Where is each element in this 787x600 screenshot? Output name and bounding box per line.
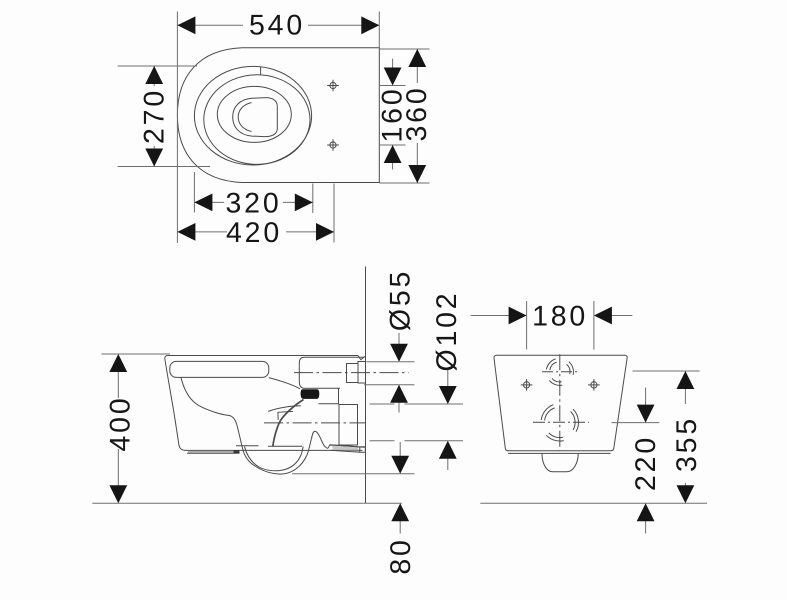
arrow 220 bottom (points up) <box>637 503 655 521</box>
outlet bump <box>542 454 578 472</box>
svg-text:Ø102: Ø102 <box>431 291 463 372</box>
80 reference line <box>292 473 415 475</box>
arrow 355 top (points up) <box>677 371 695 389</box>
flush dashed circle arcs <box>546 359 573 386</box>
arrow 420 left <box>177 223 195 241</box>
dim D55 line <box>398 333 400 345</box>
rear center line (dash-dot) <box>559 354 561 450</box>
extension line 180 right <box>593 301 595 350</box>
water surface inner arc <box>238 103 251 132</box>
trap water line right <box>268 445 302 447</box>
outlet pipe band bottom <box>331 450 361 452</box>
extension line right y183 <box>379 182 429 184</box>
extension line 270 top <box>118 65 197 67</box>
flush cross line (dash-dot) <box>542 371 578 373</box>
bowl ellipse <box>217 86 291 142</box>
flush gasket blob <box>301 389 320 399</box>
bottom band shading <box>188 451 239 453</box>
arrow D55 top (points down) <box>390 344 408 362</box>
flush deflector flag <box>278 411 293 419</box>
dim 420 line <box>177 231 227 233</box>
floor line right <box>480 502 707 504</box>
arrow 540 right <box>361 16 379 34</box>
fixing hole crosshair left (rear) <box>521 379 533 391</box>
arrow 420 right <box>316 223 334 241</box>
sump water line left <box>236 445 259 447</box>
water surface outline <box>233 98 278 137</box>
outlet socket rect <box>339 405 358 446</box>
svg-text:360: 360 <box>401 86 433 142</box>
arrow 220 top (points down) <box>637 405 655 423</box>
extension line 320 right <box>312 184 314 214</box>
flush socket back plate <box>358 362 366 384</box>
extension line 420 right <box>333 184 335 243</box>
arrow 270 top <box>145 66 163 84</box>
bowl back wall curve <box>273 400 304 447</box>
trap inner curve <box>245 447 304 471</box>
arrow 320 right <box>295 194 313 212</box>
svg-text:80: 80 <box>385 537 417 574</box>
fixing hole crosshair lower (plan) <box>327 139 339 151</box>
rear bottom band <box>508 452 611 454</box>
arrow 180 right (points left) <box>594 307 612 325</box>
bottom band end tick <box>234 450 240 453</box>
extension line D102 top <box>370 403 395 405</box>
dim 80 line <box>399 442 401 457</box>
extension line right y85.5 <box>379 85 405 87</box>
side body outline <box>165 356 358 451</box>
svg-text:Ø55: Ø55 <box>385 269 417 331</box>
svg-text:400: 400 <box>105 396 137 452</box>
extension line 270 bottom <box>118 166 210 168</box>
dim 320 line <box>194 201 224 203</box>
rim outer ellipse <box>194 66 311 165</box>
arrow 540 left <box>177 16 195 34</box>
arrow 160 top (outside, points down) <box>384 68 402 86</box>
extension line D55 top <box>366 361 414 363</box>
flush centerline (dash-dot) <box>294 372 409 374</box>
bottom edge long line <box>186 449 363 451</box>
arrow 360 bottom <box>408 165 426 183</box>
arrow 270 bottom <box>145 149 163 167</box>
outlet pipe band shading <box>332 446 358 452</box>
fixing hole crosshair right (rear) <box>588 379 600 391</box>
bowl rim back line <box>268 406 301 412</box>
top back chamfer <box>358 356 366 360</box>
outlet dashed circle arcs <box>541 405 578 441</box>
arrow 400 top <box>109 354 127 372</box>
arrow 360 top <box>408 49 426 67</box>
seat opening outline <box>170 361 269 377</box>
extension line right (540) / plan right edge top <box>378 12 380 48</box>
floor line left <box>92 502 402 504</box>
arrow 180 left (points right) <box>509 307 527 325</box>
fixing hole crosshair upper (plan) <box>327 80 339 92</box>
arrow 400 bottom <box>109 485 127 503</box>
extension line 320 left <box>193 172 195 213</box>
outlet centerline (dash-dot) <box>264 422 366 424</box>
extension line 355 top <box>633 370 700 372</box>
svg-text:420: 420 <box>226 217 282 249</box>
dim 360 line <box>416 49 418 83</box>
trap outer curve with hump <box>243 431 365 474</box>
svg-text:320: 320 <box>226 188 282 220</box>
dim 355 line <box>684 388 686 404</box>
outlet socket inner line <box>357 405 359 446</box>
svg-text:220: 220 <box>630 435 662 491</box>
outlet pipe end box <box>360 447 366 453</box>
dim 540 line <box>177 24 243 26</box>
dim 220 line <box>645 388 647 406</box>
extension line right y49 <box>379 48 429 50</box>
seat to channel connection <box>269 378 300 389</box>
flush channel outline <box>299 357 364 388</box>
outlet pipe band top <box>330 445 360 447</box>
extension line 180 left <box>526 301 528 350</box>
dim D102 line <box>447 370 449 387</box>
extension line right y145 <box>379 144 405 146</box>
bowl interior into trap wall <box>181 378 243 451</box>
arrow D102 top (points down) <box>439 386 457 404</box>
extension line left (540/420) <box>176 12 178 244</box>
arrow 160 bottom (outside, points up) <box>384 145 402 163</box>
svg-text:540: 540 <box>249 10 305 42</box>
arrow D55 bottom (points up) <box>390 385 408 403</box>
extension line 220 top <box>612 422 660 424</box>
dim 160 line <box>392 59 394 69</box>
rear body outline <box>494 355 627 450</box>
arrow 355 bottom (points down) <box>677 485 695 503</box>
dim 400 line <box>117 371 119 398</box>
extension line D55 bottom <box>364 384 415 386</box>
dim 270 line <box>153 66 155 86</box>
arrow 80 top (points down) <box>391 456 409 474</box>
extension line 400 top <box>102 353 171 355</box>
flush channel step <box>319 388 339 404</box>
arrow 320 left <box>194 194 212 212</box>
extension line D102 bottom <box>370 440 395 442</box>
svg-text:180: 180 <box>532 301 588 333</box>
bottom front band lower line <box>187 452 240 454</box>
svg-text:270: 270 <box>138 88 170 144</box>
dim 180 line <box>471 315 510 317</box>
flush socket rect <box>347 364 359 383</box>
svg-text:355: 355 <box>671 416 703 472</box>
wall line <box>365 267 367 504</box>
arrow 80 bottom (points up) <box>391 503 409 521</box>
rim spiral notch <box>260 67 262 75</box>
outlet cross line (dash-dot) <box>533 421 589 423</box>
arrow D102 bottom (points up) <box>439 441 457 459</box>
body outline (plan) <box>177 48 379 183</box>
rim spiral ellipse <box>204 75 310 165</box>
